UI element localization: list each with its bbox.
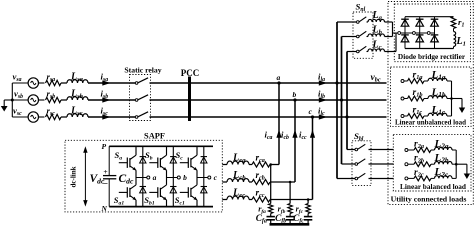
wire L_cc to r_cc: [249, 199, 252, 201]
inductor L_ca: [227, 161, 249, 164]
junction phase b tap: [340, 98, 343, 101]
current arrow i_la: [319, 80, 327, 85]
inductor L_2c: [435, 176, 453, 179]
transistor S_b (top IGBT): [149, 162, 158, 164]
wire phase a down to S_bl: [336, 83, 338, 179]
wire relay to PCC line c: [150, 116, 387, 118]
current arrow i_sc: [102, 114, 110, 119]
svg-text:b: b: [293, 90, 297, 99]
wire r_sc to L_sc: [61, 116, 67, 118]
wire tap to r_fb: [289, 182, 291, 204]
diode bridge rectifier box: [394, 4, 470, 62]
diode lower leg b: [416, 34, 424, 36]
inductor L_b: [368, 34, 384, 37]
wire terminal to r_1c: [404, 115, 408, 117]
switch S_bl phase b: [355, 163, 358, 166]
wire phase b down to S_bl: [341, 100, 343, 164]
wire source a to resistor: [39, 82, 45, 84]
wire source b to resistor: [39, 99, 45, 101]
balanced load bus: [455, 150, 457, 178]
inductor L_2a: [435, 147, 453, 150]
wire relay to PCC line b: [150, 99, 387, 101]
wire terminal to r_1b: [404, 98, 408, 100]
wire leg c midpoint: [197, 177, 208, 179]
wire S_bl out row3: [369, 178, 394, 180]
wire bus to ground stub: [456, 163, 467, 165]
svg-text:Diode bridge rectifier: Diode bridge rectifier: [398, 52, 466, 61]
resistor r_1c: [408, 114, 425, 119]
inductor L_sb: [67, 97, 88, 100]
wire to ground: [4, 99, 12, 101]
resistor r_fa: [269, 204, 273, 214]
diode D_c1 (bottom): [203, 178, 205, 207]
static relay box: [130, 75, 151, 121]
junction balanced bus: [455, 163, 458, 166]
wire L_1 to rail: [453, 47, 455, 49]
diode D_b1 (bottom): [172, 178, 174, 207]
ground unbalanced load: [459, 108, 465, 114]
wire L_2c to bus: [452, 177, 456, 179]
terminal b: [177, 176, 180, 179]
linear unbalanced load box: [391, 67, 472, 127]
wire L_ca to r_ca: [249, 164, 252, 166]
wire r_fb to C_fb: [289, 214, 291, 217]
wire r_1a to L_1a: [424, 80, 428, 82]
transistor S_b1 (bottom IGBT): [149, 191, 158, 193]
wire terminal to r_2c: [408, 177, 414, 179]
inductor L_1: [454, 32, 456, 47]
current arrow i_sa: [102, 80, 110, 85]
bridge bottom rail: [405, 48, 454, 50]
wire L_sb to relay: [88, 99, 135, 101]
junction phase a tap: [335, 81, 338, 84]
transistor S_a1 (bottom IGBT): [119, 191, 128, 193]
svg-text:P: P: [102, 142, 107, 151]
load terminal 1b: [401, 97, 404, 100]
node b: [293, 98, 296, 101]
switch S relay phase a: [135, 82, 138, 85]
wire L_c into bridge: [385, 51, 397, 53]
wire r_2a to L_2a: [431, 149, 435, 151]
junction unbalanced bus: [450, 97, 453, 100]
inductor L_1b: [428, 96, 447, 99]
dc rail N: [109, 206, 213, 208]
bridge input terminal c: [427, 32, 430, 35]
resistor r_2b: [414, 162, 431, 167]
SAPF box: [65, 140, 222, 212]
wire r_cc to node vertical: [270, 199, 313, 201]
switch S_nl phase a: [357, 21, 360, 24]
wire node b vertical: [294, 100, 296, 182]
capacitor C_fc: [304, 216, 312, 218]
bridge leg c wire: [434, 17, 436, 49]
current arrow i_ca: [276, 130, 281, 138]
diode D_a1 (bottom): [142, 178, 144, 207]
transistor S_c (top IGBT): [180, 162, 189, 164]
inductor L_sc: [67, 114, 88, 117]
resistor r_ca: [252, 162, 270, 167]
wire r_sa to L_sa: [61, 82, 67, 84]
wire r_sb to L_sb: [61, 99, 67, 101]
inductor L_1a: [428, 78, 447, 81]
filter star bus: [270, 223, 310, 226]
transistor S_c1 (bottom IGBT): [180, 191, 189, 193]
terminal c: [208, 176, 211, 179]
svg-text:Static relay: Static relay: [124, 66, 161, 75]
svg-text:SAPF: SAPF: [144, 132, 165, 141]
wire terminal to r_1a: [404, 80, 408, 82]
resistor r_sc: [46, 114, 62, 119]
svg-text:Utility connected loads: Utility connected loads: [391, 195, 467, 204]
load terminal 2b: [405, 163, 408, 166]
wire source c to resistor: [39, 116, 45, 118]
capacitor C_fa: [267, 216, 275, 218]
wire L_cb to r_cb: [249, 181, 252, 183]
bridge top rail: [405, 16, 454, 18]
capacitor C_dc: [108, 146, 110, 175]
diode upper leg c: [431, 18, 439, 20]
load terminal 1c: [401, 115, 404, 118]
wire L_sa to relay: [88, 82, 135, 84]
wire r_2c to L_2c: [431, 177, 435, 179]
load terminal 1a: [401, 80, 404, 83]
wire r_ca to node vertical: [270, 164, 279, 166]
node a: [277, 81, 280, 84]
resistor r_cc: [252, 197, 270, 202]
wire r_1c to L_1c: [424, 115, 428, 117]
capacitor C_fb: [286, 216, 294, 218]
dc-link arrow: [84, 149, 86, 205]
inductor L_cc: [227, 196, 249, 199]
dc rail P: [109, 145, 213, 147]
inductor L_sa: [67, 80, 88, 83]
wire C_fa to bus: [270, 220, 272, 225]
wire L_sc to relay: [88, 116, 135, 118]
bridge input terminal a: [398, 32, 401, 35]
svg-text:a: a: [277, 73, 281, 82]
bridge leg b wire: [419, 17, 421, 49]
ground balanced load: [464, 174, 470, 180]
ground: [1, 106, 8, 112]
resistor r_fb: [288, 204, 292, 214]
resistor r_2c: [414, 176, 431, 181]
junction r_fa tap: [269, 163, 272, 166]
wire phase c down to S_bl: [346, 117, 348, 150]
utility connected loads box: [388, 2, 473, 205]
current arrow i_cc: [310, 130, 315, 138]
diode D_a (top): [142, 146, 144, 177]
wire bus to ground stub: [452, 98, 463, 100]
wire ground bus (source neutral): [11, 83, 13, 117]
node c: [311, 115, 314, 118]
diode upper leg b: [416, 18, 424, 20]
diode D_b (top): [172, 146, 174, 177]
wire r_fa to C_fa: [270, 214, 272, 217]
source Vsc: [28, 112, 38, 122]
wire tap to r_fc: [307, 200, 309, 204]
wire leg b midpoint: [167, 177, 178, 179]
inductor L_c: [368, 49, 384, 52]
wire relay to PCC line a: [150, 82, 387, 84]
terminal a: [147, 176, 150, 179]
inductor L_a: [368, 19, 384, 22]
wire node c vertical: [312, 117, 314, 200]
svg-text:PCC: PCC: [181, 68, 200, 78]
wire r_2b to L_2b: [431, 163, 435, 165]
junction phase c tap: [345, 115, 348, 118]
load terminal 2c: [405, 177, 408, 180]
wire L_2b to bus: [452, 163, 456, 165]
svg-text:b: b: [183, 173, 187, 182]
source Vsb: [28, 95, 38, 105]
wire terminal to r_2b: [408, 163, 414, 165]
wire L_2a to bus: [452, 149, 456, 151]
switch S_nl phase c: [357, 50, 360, 53]
wire SAPF edge row cb: [222, 181, 227, 183]
resistor r_sb: [46, 97, 62, 102]
linear balanced load box: [393, 135, 471, 191]
bridge leg a wire: [404, 17, 406, 49]
wire SAPF edge row cc: [222, 199, 227, 201]
wire C_fb to bus: [289, 220, 291, 225]
current arrow i_lb: [319, 97, 327, 102]
switch S relay phase b: [135, 99, 138, 102]
unbalanced load bus: [451, 81, 453, 116]
svg-text:Linear balanced load: Linear balanced load: [400, 182, 466, 191]
wire L_b into bridge: [385, 36, 393, 38]
switch box S_nl: [353, 12, 373, 58]
resistor r_fc: [306, 204, 310, 214]
inductor L_1c: [428, 113, 447, 116]
svg-text:N: N: [101, 204, 108, 213]
current arrow i_cb: [292, 130, 297, 138]
current arrow i_lc: [319, 114, 327, 119]
resistor r_2a: [414, 148, 431, 153]
load terminal 2a: [405, 149, 408, 152]
resistor r_1: [451, 17, 456, 29]
wire S_bl out row1: [369, 149, 394, 151]
junction r_fb tap: [289, 181, 292, 184]
wire phase b up to S_nl: [341, 37, 343, 101]
wire leg a midpoint: [136, 177, 147, 179]
resistor r_sa: [46, 80, 62, 85]
PCC bus bar: [188, 77, 191, 122]
switch S relay phase c: [135, 116, 138, 119]
wire L_1c to bus: [447, 115, 452, 117]
wire r_cb to node vertical: [270, 181, 295, 183]
resistor r_1a: [408, 79, 425, 84]
wire L_a into bridge: [385, 21, 393, 23]
switch S_nl phase b: [357, 35, 360, 38]
wire r_1b to L_1b: [424, 98, 428, 100]
wire C_fc to bus: [307, 220, 309, 225]
resistor r_cb: [252, 179, 270, 184]
junction r_fc tap: [307, 198, 310, 201]
wire phase c up to S_nl: [346, 52, 348, 118]
wire r_fc to C_fc: [307, 214, 309, 217]
svg-text:a: a: [153, 173, 157, 182]
inductor L_cb: [227, 179, 249, 182]
diode lower leg a: [401, 34, 409, 36]
wire SAPF edge row ca: [222, 164, 227, 166]
wire node a vertical: [278, 83, 280, 165]
wire r_1 to L_1: [453, 29, 455, 32]
wire L_1a to bus: [447, 80, 452, 82]
switch S_bl phase a: [355, 177, 358, 180]
resistor r_1b: [408, 96, 425, 101]
inductor L_2b: [435, 161, 453, 164]
wire to L_a: [367, 21, 369, 23]
transistor S_a (top IGBT): [119, 162, 128, 164]
wire terminal to r_2a: [408, 149, 414, 151]
switch box S_bl: [352, 141, 371, 186]
wire to L_b: [367, 36, 369, 38]
wire phase a up to S_nl: [336, 22, 338, 83]
svg-text:+: +: [103, 167, 107, 176]
bridge input bus: [393, 32, 435, 34]
current arrow i_sb: [102, 97, 110, 102]
source Vsa: [28, 78, 38, 88]
wire to L_c: [367, 51, 369, 53]
diode lower leg c: [431, 34, 439, 36]
diode upper leg a: [401, 18, 409, 20]
svg-text:Linear unbalanced load: Linear unbalanced load: [395, 119, 466, 127]
node neutral junction: [11, 99, 14, 102]
bridge input terminal b: [413, 32, 416, 35]
wire tap to r_fa: [270, 165, 272, 204]
wire S_bl out row2: [369, 163, 394, 165]
switch S_bl phase c: [355, 148, 358, 151]
diode D_c (top): [203, 146, 205, 177]
svg-text:dc-link: dc-link: [70, 166, 78, 187]
svg-text:−: −: [103, 179, 108, 189]
wire L_1b to bus: [447, 98, 452, 100]
